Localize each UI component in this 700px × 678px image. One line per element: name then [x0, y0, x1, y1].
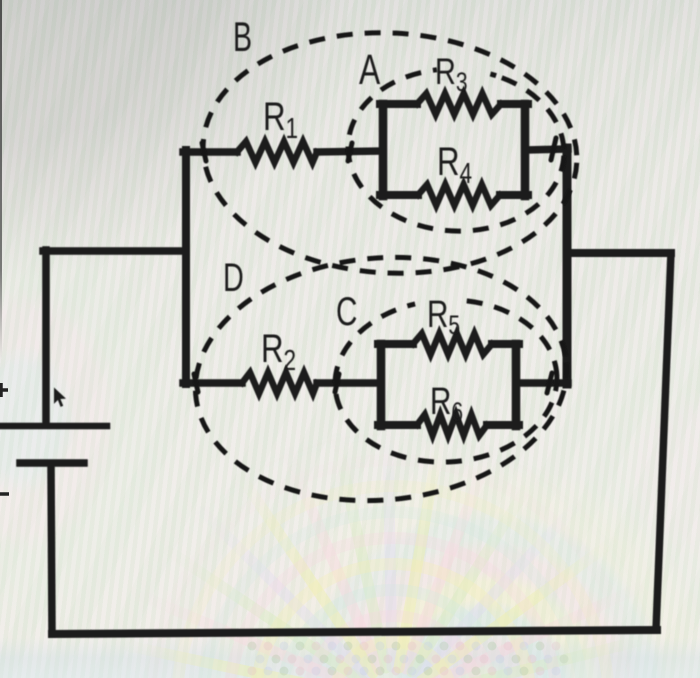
- wire: upper box bottom-left segment: [380, 191, 418, 199]
- label R1: [263, 94, 298, 144]
- battery - terminal label (clipped at edge): [0, 492, 9, 496]
- label A: [359, 46, 381, 94]
- battery + terminal label (clipped at edge): [0, 383, 8, 397]
- svg-text:R2: R2: [261, 326, 296, 376]
- label D: [223, 255, 244, 300]
- svg-text:A: A: [359, 46, 381, 94]
- wire: right outer vertical: [656, 253, 671, 630]
- wire: inner-left vertical joining upper and lower branches: [182, 150, 190, 384]
- wire: R2 to parallel box C: [317, 379, 381, 387]
- wire: R1 to parallel box A: [317, 151, 383, 152]
- svg-text:R5: R5: [427, 294, 460, 341]
- dashed ellipse A: [344, 63, 568, 236]
- resistor R5: [413, 334, 492, 355]
- svg-text:R1: R1: [263, 94, 298, 144]
- resistor R1: [237, 142, 317, 163]
- wire: upper branch left segment to R1: [183, 148, 237, 156]
- dashed ellipse B: [197, 23, 583, 282]
- wire: right horizontal to outer right: [567, 249, 671, 257]
- svg-text:B: B: [233, 12, 252, 60]
- battery positive long plate: [0, 423, 107, 430]
- wire: lower box bottom-left segment: [378, 421, 417, 429]
- tick where B crosses upper branch: [202, 143, 206, 161]
- wire: upper box top-right segment: [501, 100, 528, 108]
- wire: lower branch left segment to R2: [183, 379, 242, 387]
- battery negative short plate: [20, 459, 84, 467]
- mouse cursor: [54, 388, 66, 407]
- label B: [233, 12, 252, 60]
- wire: lower box top-right segment: [492, 340, 519, 348]
- wire: upper box right vertical: [521, 104, 530, 196]
- resistor R4: [418, 185, 500, 206]
- photo left edge dark strip: [0, 0, 2, 360]
- double tick where C and D cross right of box C: [547, 373, 552, 393]
- wire: upper box bottom-right segment: [500, 191, 528, 199]
- wire: upper box top-left segment: [380, 100, 417, 108]
- svg-text:R4: R4: [437, 139, 472, 189]
- label R3: [435, 52, 468, 98]
- wire: top horizontal from battery branch to inner-left node: [43, 247, 186, 255]
- label R2: [261, 326, 296, 376]
- dashed ellipse C: [331, 294, 561, 467]
- svg-text:R6: R6: [430, 381, 463, 428]
- wire: lower box top-left segment: [378, 340, 413, 348]
- resistor R2: [242, 373, 317, 394]
- label C: [336, 290, 357, 334]
- wire: box C to mid-right vertical: [516, 379, 568, 387]
- label R4: [437, 139, 472, 189]
- wire: lower box left vertical: [377, 344, 386, 426]
- wire: left outer vertical from top node to battery + plate: [42, 250, 50, 423]
- wire: bottom horizontal: [52, 630, 657, 634]
- wire: battery negative lead down to bottom wire: [51, 465, 52, 634]
- wire: lower box right vertical: [512, 344, 521, 426]
- tick where A crosses upper branch: [348, 143, 352, 161]
- wire: mid-right vertical joining branches: [563, 148, 572, 384]
- tick where D crosses lower branch: [194, 374, 198, 392]
- svg-text:C: C: [336, 290, 357, 334]
- resistor R3: [417, 94, 501, 115]
- svg-text:D: D: [223, 255, 244, 300]
- wire: lower box bottom-right segment: [487, 421, 519, 429]
- resistor R6: [417, 415, 487, 436]
- svg-text:R3: R3: [435, 52, 468, 98]
- wire: box A to mid-right vertical: [525, 149, 568, 150]
- double tick where A and B cross right of box A: [551, 138, 556, 160]
- tick where C crosses lower branch: [335, 374, 339, 392]
- label R6: [430, 381, 463, 428]
- label R5: [427, 294, 460, 341]
- wire: upper box left vertical: [379, 104, 388, 196]
- dashed ellipse D: [185, 242, 577, 516]
